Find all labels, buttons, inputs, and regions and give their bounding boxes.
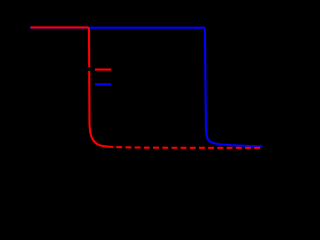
blue curve [30,28,262,147]
legend red sample [95,69,111,71]
red curve solid part [31,27,114,147]
red curve dashed tail [116,146,262,149]
gap in red vertical [87,67,92,71]
plot background [0,0,266,176]
legend blue sample [95,83,111,85]
